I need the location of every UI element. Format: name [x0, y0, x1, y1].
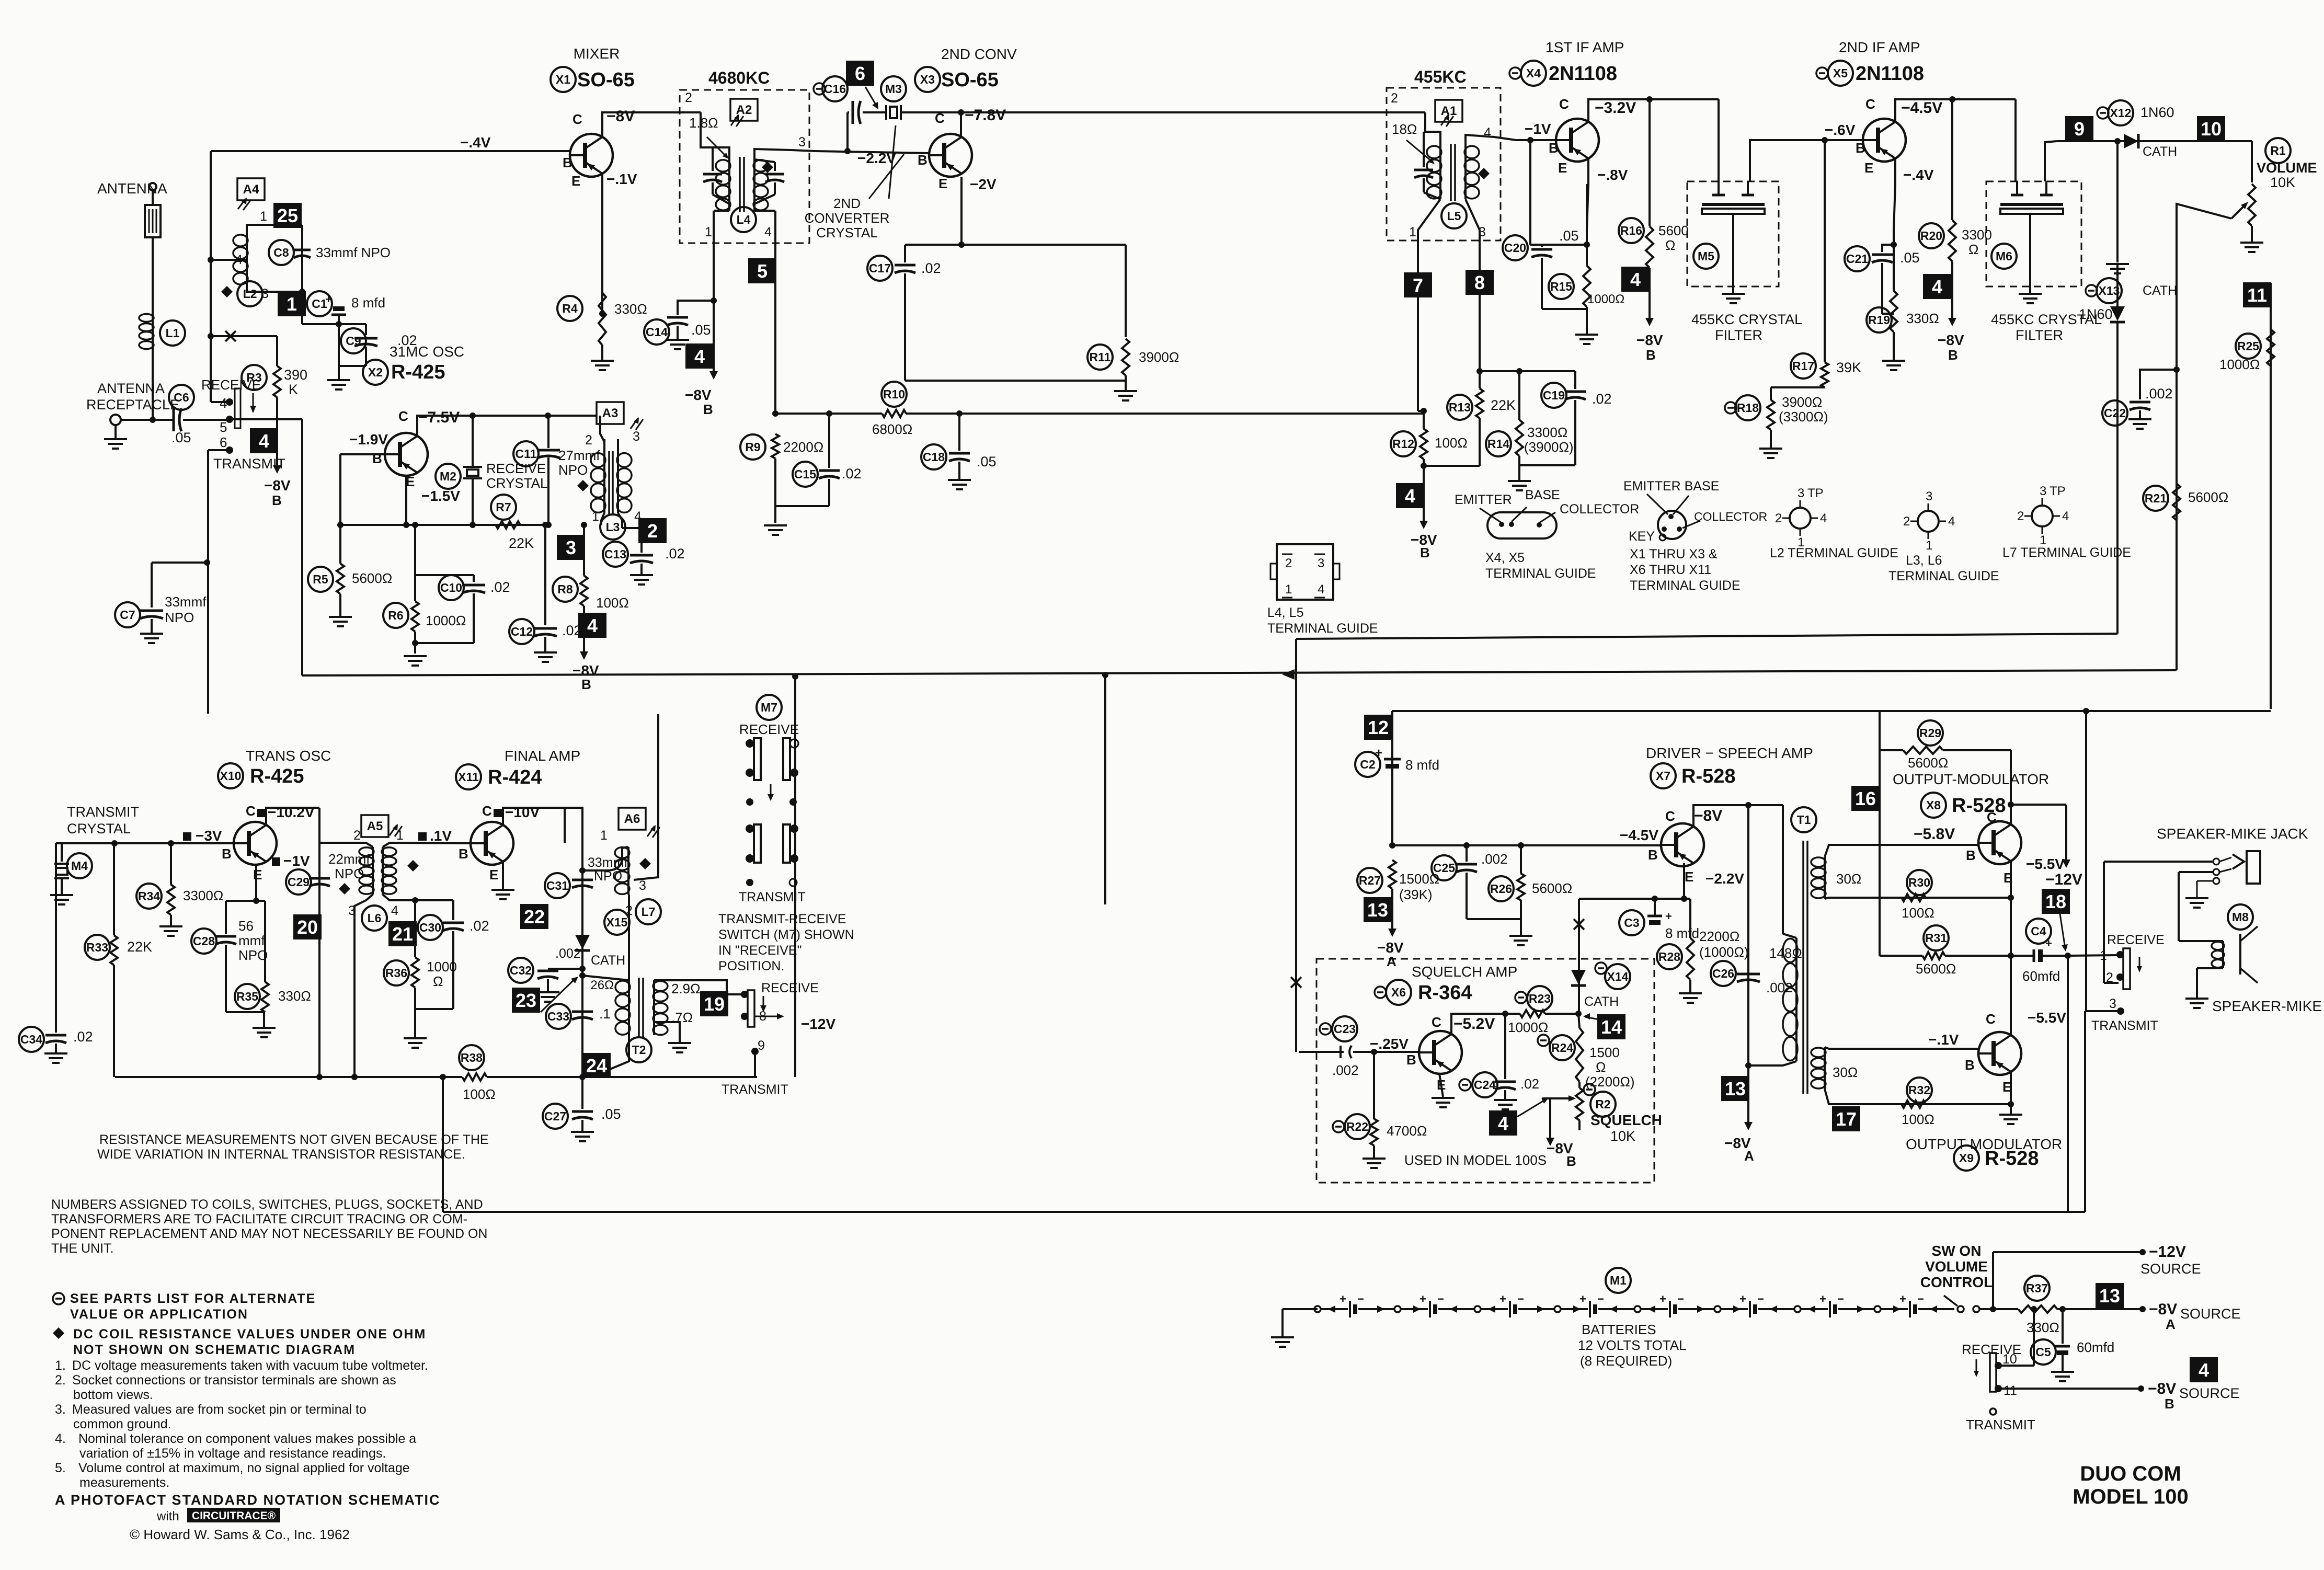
- svg-text:R-425: R-425: [250, 765, 304, 787]
- svg-text:.002: .002: [1332, 1062, 1359, 1078]
- svg-text:B: B: [1966, 847, 1976, 863]
- svg-text:R14: R14: [1487, 437, 1509, 451]
- svg-text:C3: C3: [1624, 916, 1639, 930]
- svg-text:+: +: [1659, 1292, 1666, 1305]
- svg-text:5.: 5.: [55, 1461, 66, 1475]
- svg-text:12 VOLTS TOTAL: 12 VOLTS TOTAL: [1578, 1337, 1687, 1353]
- svg-text:13: 13: [2099, 1285, 2120, 1307]
- svg-text:X10: X10: [220, 769, 242, 783]
- svg-text:22: 22: [524, 906, 545, 927]
- svg-text:1: 1: [2100, 948, 2107, 963]
- svg-text:R30: R30: [1908, 876, 1930, 889]
- svg-text:RESISTANCE MEASUREMENTS NOT GI: RESISTANCE MEASUREMENTS NOT GIVEN BECAUS…: [99, 1132, 489, 1147]
- svg-text:.02: .02: [490, 579, 510, 595]
- svg-text:C28: C28: [193, 934, 215, 948]
- svg-text:NPO: NPO: [238, 947, 268, 963]
- svg-text:330Ω: 330Ω: [614, 301, 647, 317]
- svg-text:3300: 3300: [1962, 227, 1992, 243]
- svg-text:X9: X9: [1959, 1151, 1974, 1165]
- svg-text:10K: 10K: [1610, 1128, 1635, 1144]
- svg-text:TERMINAL GUIDE: TERMINAL GUIDE: [1888, 569, 1999, 583]
- svg-text:B: B: [703, 402, 713, 417]
- svg-text:R26: R26: [1490, 882, 1512, 896]
- svg-text:L2: L2: [243, 287, 257, 301]
- svg-text:.002: .002: [1481, 851, 1508, 867]
- svg-text:B: B: [563, 155, 573, 170]
- svg-text:.02: .02: [73, 1029, 93, 1045]
- svg-text:R8: R8: [557, 582, 573, 596]
- svg-text:E: E: [938, 176, 947, 191]
- svg-text:M7: M7: [761, 701, 777, 714]
- svg-text:X4: X4: [1526, 66, 1541, 80]
- svg-text:−5.8V: −5.8V: [1914, 826, 1955, 843]
- svg-text:R7: R7: [496, 500, 511, 514]
- svg-text:−2V: −2V: [970, 176, 997, 192]
- svg-text:8 mfd: 8 mfd: [1405, 757, 1439, 773]
- svg-text:FILTER: FILTER: [1715, 327, 1762, 343]
- svg-text:C: C: [1865, 96, 1875, 112]
- svg-text:M4: M4: [71, 859, 88, 873]
- svg-text:R-425: R-425: [391, 361, 445, 383]
- svg-text:10: 10: [2002, 1352, 2017, 1367]
- svg-text:MODEL 100: MODEL 100: [2073, 1485, 2189, 1508]
- svg-text:C7: C7: [120, 608, 135, 622]
- svg-text:SQUELCH AMP: SQUELCH AMP: [1412, 964, 1517, 980]
- svg-text:−4.5V: −4.5V: [1620, 827, 1658, 843]
- svg-text:25: 25: [277, 205, 298, 226]
- svg-text:R3: R3: [246, 371, 261, 384]
- svg-text:R2: R2: [1595, 1097, 1610, 1111]
- svg-text:−12V: −12V: [2045, 871, 2082, 888]
- svg-text:5: 5: [220, 419, 227, 435]
- svg-text:3900Ω: 3900Ω: [1139, 349, 1179, 365]
- svg-text:C20: C20: [1504, 241, 1526, 255]
- svg-text:5600Ω: 5600Ω: [1532, 880, 1572, 896]
- svg-text:1: 1: [1285, 582, 1292, 597]
- svg-text:.002: .002: [555, 946, 581, 961]
- svg-text:B: B: [1646, 347, 1656, 363]
- svg-text:2: 2: [1903, 514, 1910, 529]
- svg-text:X1: X1: [556, 73, 570, 86]
- svg-text:E: E: [253, 867, 262, 883]
- svg-text:4: 4: [1405, 485, 1415, 507]
- svg-text:CATH: CATH: [2143, 283, 2177, 298]
- svg-text:L5: L5: [1447, 209, 1461, 223]
- svg-text:−12V: −12V: [801, 1016, 835, 1032]
- svg-text:R28: R28: [1658, 950, 1680, 964]
- svg-text:X15: X15: [606, 915, 628, 929]
- svg-text:.05: .05: [1900, 250, 1920, 266]
- svg-text:C: C: [935, 110, 945, 126]
- svg-text:C29: C29: [288, 875, 310, 889]
- svg-text:B: B: [1648, 847, 1658, 863]
- svg-text:3: 3: [2040, 484, 2046, 498]
- svg-text:−8V: −8V: [685, 387, 712, 403]
- svg-text:R22: R22: [1346, 1120, 1368, 1133]
- svg-text:C17: C17: [869, 261, 891, 275]
- svg-text:−12V: −12V: [2149, 1243, 2186, 1260]
- svg-text:−1V: −1V: [1525, 121, 1551, 137]
- svg-text:CONVERTER: CONVERTER: [805, 210, 890, 226]
- svg-text:6: 6: [855, 63, 865, 84]
- svg-text:Nominal tolerance on component: Nominal tolerance on component values ma…: [78, 1431, 416, 1446]
- svg-text:TERMINAL GUIDE: TERMINAL GUIDE: [1485, 566, 1596, 581]
- svg-text:33mmf: 33mmf: [165, 594, 207, 610]
- svg-text:B: B: [2165, 1396, 2174, 1412]
- svg-text:A3: A3: [602, 406, 619, 420]
- svg-text:X6 THRU X11: X6 THRU X11: [1630, 563, 1711, 577]
- svg-text:IN "RECEIVE": IN "RECEIVE": [718, 943, 802, 958]
- svg-text:L6: L6: [368, 911, 382, 925]
- svg-text:EMITTER: EMITTER: [1455, 492, 1512, 507]
- svg-text:1: 1: [396, 828, 404, 843]
- svg-text:R5: R5: [313, 572, 328, 586]
- svg-text:−.8V: −.8V: [1597, 167, 1628, 183]
- svg-text:C34: C34: [20, 1033, 42, 1046]
- svg-text:RECEPTACLE: RECEPTACLE: [86, 397, 179, 412]
- svg-text:(1000Ω): (1000Ω): [1699, 944, 1749, 960]
- svg-text:R33: R33: [86, 941, 108, 954]
- svg-text:3: 3: [261, 287, 269, 301]
- svg-text:−10.2V: −10.2V: [268, 804, 315, 820]
- svg-text:−1V: −1V: [283, 853, 310, 869]
- svg-text:X3: X3: [920, 73, 935, 86]
- svg-text:4700Ω: 4700Ω: [1387, 1123, 1427, 1139]
- svg-text:A: A: [1387, 954, 1396, 969]
- svg-text:C: C: [1987, 809, 1997, 825]
- svg-text:390: 390: [284, 367, 307, 383]
- svg-text:Ω: Ω: [1596, 1059, 1606, 1075]
- svg-text:R-424: R-424: [488, 766, 542, 788]
- svg-text:TRANSMIT: TRANSMIT: [213, 456, 285, 472]
- svg-text:A4: A4: [243, 182, 259, 197]
- svg-text:4: 4: [235, 253, 243, 267]
- svg-text:TRANSFORMERS ARE TO FACILITATE: TRANSFORMERS ARE TO FACILITATE CIRCUIT T…: [51, 1212, 467, 1227]
- svg-text:R19: R19: [1868, 313, 1890, 327]
- svg-text:−: −: [1677, 1292, 1684, 1305]
- svg-text:.05: .05: [171, 430, 191, 445]
- svg-text:C10: C10: [440, 581, 462, 594]
- svg-text:4: 4: [1630, 269, 1641, 290]
- svg-text:TP: TP: [2050, 484, 2066, 498]
- svg-text:4.: 4.: [55, 1431, 66, 1446]
- svg-text:3: 3: [1926, 489, 1932, 503]
- svg-text:1: 1: [592, 509, 599, 524]
- svg-text:−3V: −3V: [196, 828, 222, 844]
- svg-text:.002: .002: [2145, 386, 2173, 402]
- svg-text:R31: R31: [1925, 931, 1947, 945]
- svg-text:COLLECTOR: COLLECTOR: [1560, 502, 1639, 517]
- svg-text:3.: 3.: [55, 1402, 66, 1417]
- svg-text:C8: C8: [273, 246, 289, 259]
- svg-text:+: +: [2045, 937, 2052, 950]
- svg-text:.02: .02: [921, 260, 941, 276]
- svg-text:2200Ω: 2200Ω: [1699, 929, 1739, 944]
- svg-text:1000Ω: 1000Ω: [426, 613, 466, 628]
- svg-text:B: B: [1566, 1153, 1576, 1169]
- svg-text:C18: C18: [923, 450, 945, 464]
- svg-text:POSITION.: POSITION.: [718, 959, 784, 973]
- svg-text:1: 1: [600, 828, 608, 843]
- svg-text:1.8Ω: 1.8Ω: [689, 115, 718, 131]
- svg-text:4: 4: [2199, 1359, 2209, 1381]
- svg-text:B: B: [1948, 347, 1958, 363]
- svg-text:24: 24: [586, 1055, 607, 1076]
- svg-text:.1V: .1V: [430, 828, 452, 844]
- svg-text:VOLUME: VOLUME: [2257, 160, 2317, 176]
- svg-text:R-528: R-528: [1985, 1148, 2039, 1170]
- svg-text:PONENT REPLACEMENT AND MAY NOT: PONENT REPLACEMENT AND MAY NOT NECESSARI…: [51, 1227, 487, 1241]
- svg-text:CATH: CATH: [1584, 994, 1619, 1009]
- svg-text:R38: R38: [461, 1051, 483, 1064]
- svg-text:(3900Ω): (3900Ω): [1524, 439, 1574, 455]
- svg-text:2: 2: [585, 433, 592, 448]
- svg-text:CATH: CATH: [2143, 144, 2177, 159]
- svg-text:19: 19: [704, 993, 725, 1015]
- svg-text:.02: .02: [842, 466, 862, 482]
- svg-text:.02: .02: [470, 918, 489, 934]
- svg-text:with: with: [156, 1509, 179, 1523]
- svg-text:.02: .02: [1592, 391, 1612, 407]
- svg-text:100Ω: 100Ω: [463, 1086, 496, 1102]
- svg-text:C21: C21: [1846, 252, 1868, 266]
- svg-text:X8: X8: [1926, 798, 1941, 812]
- svg-text:R1: R1: [2270, 144, 2286, 157]
- svg-text:R17: R17: [1792, 359, 1814, 373]
- svg-text:−: −: [1517, 1292, 1524, 1305]
- svg-text:−.1V: −.1V: [606, 171, 637, 187]
- svg-text:330Ω: 330Ω: [278, 988, 311, 1004]
- svg-text:M3: M3: [885, 82, 902, 96]
- svg-text:8: 8: [1474, 272, 1485, 293]
- svg-text:Volume control at maximum, no: Volume control at maximum, no signal app…: [78, 1461, 410, 1475]
- svg-text:C14: C14: [646, 325, 668, 339]
- svg-text:L1: L1: [166, 326, 180, 340]
- svg-text:BATTERIES: BATTERIES: [1582, 1322, 1656, 1337]
- svg-text:E: E: [571, 173, 580, 189]
- svg-text:6: 6: [220, 434, 227, 450]
- svg-text:R9: R9: [745, 440, 760, 454]
- svg-text:B: B: [1965, 1057, 1975, 1073]
- svg-text:SOURCE: SOURCE: [2179, 1385, 2240, 1401]
- svg-text:A5: A5: [367, 819, 383, 833]
- svg-text:1N60: 1N60: [2079, 306, 2113, 322]
- svg-text:30Ω: 30Ω: [1833, 1064, 1858, 1080]
- svg-text:18: 18: [2045, 891, 2066, 912]
- svg-text:−.6V: −.6V: [1825, 122, 1856, 138]
- svg-text:−7.5V: −7.5V: [418, 409, 460, 426]
- svg-text:TRANSMIT: TRANSMIT: [67, 804, 139, 820]
- svg-text:B: B: [1420, 545, 1430, 560]
- svg-text:330Ω: 330Ω: [1906, 311, 1939, 326]
- svg-text:SWITCH (M7) SHOWN: SWITCH (M7) SHOWN: [718, 927, 854, 942]
- svg-text:−10V: −10V: [505, 804, 540, 820]
- svg-text:2: 2: [2017, 509, 2024, 523]
- svg-text:R-528: R-528: [1952, 795, 2006, 817]
- svg-text:−8V: −8V: [2148, 1380, 2176, 1397]
- svg-text:4: 4: [1498, 1113, 1508, 1134]
- svg-text:4: 4: [1820, 511, 1827, 525]
- svg-text:MIXER: MIXER: [574, 45, 620, 62]
- svg-text:26Ω: 26Ω: [590, 978, 614, 992]
- svg-text:3: 3: [1798, 486, 1804, 500]
- svg-text:C: C: [573, 111, 582, 127]
- svg-text:−5.5V: −5.5V: [2028, 1010, 2066, 1026]
- svg-text:R23: R23: [1529, 992, 1551, 1005]
- svg-text:3: 3: [2109, 996, 2116, 1011]
- svg-text:R37: R37: [2026, 1281, 2048, 1295]
- svg-text:−: −: [1437, 1292, 1444, 1305]
- svg-text:CIRCUITRACE®: CIRCUITRACE®: [192, 1510, 276, 1522]
- svg-text:3: 3: [633, 429, 640, 444]
- svg-text:R32: R32: [1908, 1083, 1930, 1097]
- svg-text:7: 7: [1413, 274, 1423, 296]
- svg-text:−5.5V: −5.5V: [2026, 856, 2065, 872]
- svg-text:−7.8V: −7.8V: [965, 107, 1006, 124]
- svg-text:B: B: [1549, 140, 1559, 156]
- svg-text:−8V: −8V: [2149, 1301, 2177, 1318]
- svg-text:.05: .05: [1559, 228, 1579, 244]
- svg-text:A: A: [2166, 1316, 2176, 1332]
- svg-text:M6: M6: [1996, 249, 2012, 263]
- svg-text:−.4V: −.4V: [460, 134, 491, 151]
- svg-text:60mfd: 60mfd: [2022, 968, 2060, 984]
- svg-text:.05: .05: [691, 322, 711, 338]
- svg-text:R12: R12: [1392, 437, 1414, 451]
- svg-text:−: −: [1917, 1292, 1924, 1305]
- svg-text:B: B: [581, 677, 591, 692]
- svg-text:R29: R29: [1919, 726, 1941, 740]
- svg-text:C: C: [246, 803, 256, 819]
- svg-text:+: +: [1340, 1292, 1346, 1305]
- svg-text:C: C: [1432, 1014, 1441, 1030]
- svg-text:A PHOTOFACT STANDARD NOTATION: A PHOTOFACT STANDARD NOTATION SCHEMATIC: [55, 1492, 440, 1508]
- svg-text:SOURCE: SOURCE: [2180, 1306, 2241, 1322]
- svg-text:−.4V: −.4V: [1903, 167, 1934, 183]
- svg-text:NPO: NPO: [594, 869, 622, 884]
- svg-text:R34: R34: [138, 889, 160, 903]
- svg-text:3: 3: [798, 135, 806, 150]
- svg-text:E: E: [1864, 160, 1873, 176]
- svg-text:FINAL AMP: FINAL AMP: [505, 748, 580, 764]
- svg-text:1.: 1.: [55, 1358, 66, 1373]
- svg-text:5600: 5600: [1658, 223, 1689, 238]
- svg-text:+: +: [1665, 910, 1672, 923]
- svg-text:2.: 2.: [55, 1373, 66, 1388]
- svg-text:22K: 22K: [127, 939, 152, 955]
- svg-text:1: 1: [1409, 225, 1416, 239]
- svg-text:C11: C11: [516, 447, 537, 461]
- svg-text:C25: C25: [1433, 861, 1455, 875]
- svg-text:.02: .02: [665, 546, 685, 561]
- svg-text:ANTENNA: ANTENNA: [97, 381, 165, 396]
- svg-text:X5: X5: [1833, 66, 1848, 80]
- svg-text:−: −: [1357, 1292, 1364, 1305]
- svg-text:NOT SHOWN ON SCHEMATIC DIAGRAM: NOT SHOWN ON SCHEMATIC DIAGRAM: [73, 1343, 356, 1357]
- svg-text:E: E: [1685, 869, 1693, 885]
- svg-text:−8V: −8V: [264, 477, 291, 494]
- svg-text:2: 2: [647, 520, 658, 542]
- svg-text:11: 11: [2004, 1383, 2017, 1398]
- svg-text:C4: C4: [2031, 924, 2046, 938]
- svg-text:SQUELCH: SQUELCH: [1590, 1112, 1662, 1128]
- svg-text:1: 1: [260, 209, 267, 224]
- svg-text:−1.9V: −1.9V: [349, 431, 388, 448]
- svg-text:−2.2V: −2.2V: [1705, 870, 1744, 887]
- svg-text:23: 23: [516, 990, 536, 1011]
- svg-text:mmf: mmf: [238, 933, 265, 948]
- svg-text:DC voltage measurements taken: DC voltage measurements taken with vacuu…: [72, 1358, 428, 1373]
- svg-text:1N60: 1N60: [2140, 105, 2174, 120]
- svg-text:C13: C13: [604, 547, 626, 561]
- svg-text:9: 9: [2074, 118, 2085, 140]
- svg-text:R35: R35: [236, 990, 258, 1003]
- svg-text:R-528: R-528: [1681, 765, 1736, 787]
- svg-text:R11: R11: [1090, 350, 1111, 364]
- svg-text:4: 4: [1484, 125, 1491, 140]
- svg-text:39K: 39K: [1836, 360, 1861, 375]
- svg-text:C24: C24: [1474, 1078, 1496, 1092]
- svg-text:(3300Ω): (3300Ω): [1779, 409, 1828, 425]
- svg-text:R16: R16: [1620, 224, 1642, 237]
- svg-text:E: E: [1558, 160, 1567, 176]
- svg-text:−.1V: −.1V: [1928, 1032, 1959, 1048]
- svg-text:R25: R25: [2237, 339, 2259, 353]
- svg-text:2.9Ω: 2.9Ω: [671, 981, 701, 996]
- svg-text:C: C: [1986, 1011, 1996, 1027]
- svg-text:Measured values are from socke: Measured values are from socket pin or t…: [72, 1402, 367, 1417]
- svg-text:1500: 1500: [1589, 1045, 1620, 1060]
- svg-text:common ground.: common ground.: [73, 1417, 171, 1431]
- svg-text:T1: T1: [1797, 813, 1811, 827]
- svg-text:3: 3: [639, 878, 646, 893]
- svg-text:B: B: [459, 846, 468, 862]
- svg-text:C22: C22: [2104, 406, 2126, 420]
- svg-text:−8V: −8V: [1636, 332, 1663, 348]
- svg-text:4: 4: [259, 430, 269, 452]
- svg-text:−: −: [1597, 1292, 1604, 1305]
- svg-text:−8V: −8V: [606, 108, 635, 125]
- svg-text:4: 4: [1318, 582, 1324, 597]
- svg-text:Socket connections or transist: Socket connections or transistor termina…: [72, 1373, 396, 1388]
- svg-text:5: 5: [757, 260, 768, 282]
- svg-text:2N1108: 2N1108: [1856, 63, 1924, 85]
- svg-text:R-364: R-364: [1418, 982, 1472, 1004]
- svg-text:TRANSMIT: TRANSMIT: [1966, 1417, 2035, 1433]
- svg-text:14: 14: [1601, 1016, 1622, 1038]
- svg-text:R18: R18: [1737, 401, 1759, 415]
- svg-text:C33: C33: [547, 1010, 569, 1023]
- svg-text:5600Ω: 5600Ω: [2188, 489, 2228, 505]
- svg-text:OUTPUT-MODULATOR: OUTPUT-MODULATOR: [1893, 771, 2049, 787]
- svg-text:BASE: BASE: [1525, 488, 1560, 502]
- svg-text:C15: C15: [794, 467, 816, 481]
- svg-text:C27: C27: [544, 1109, 566, 1123]
- svg-text:30Ω: 30Ω: [1836, 871, 1861, 887]
- svg-text:bottom views.: bottom views.: [73, 1388, 153, 1402]
- svg-text:measurements.: measurements.: [79, 1475, 169, 1490]
- svg-text:33mmf NPO: 33mmf NPO: [316, 245, 391, 260]
- svg-text:.05: .05: [601, 1106, 621, 1122]
- svg-text:R24: R24: [1551, 1041, 1573, 1055]
- svg-text:4: 4: [2062, 509, 2069, 523]
- svg-text:NPO: NPO: [558, 462, 588, 478]
- svg-text:−: −: [1837, 1292, 1844, 1305]
- svg-text:3: 3: [1318, 556, 1324, 570]
- svg-text:WIDE VARIATION IN INTERNAL TRA: WIDE VARIATION IN INTERNAL TRANSISTOR RE…: [97, 1147, 465, 1162]
- svg-text:4: 4: [391, 903, 398, 918]
- svg-text:1000Ω: 1000Ω: [2219, 357, 2260, 372]
